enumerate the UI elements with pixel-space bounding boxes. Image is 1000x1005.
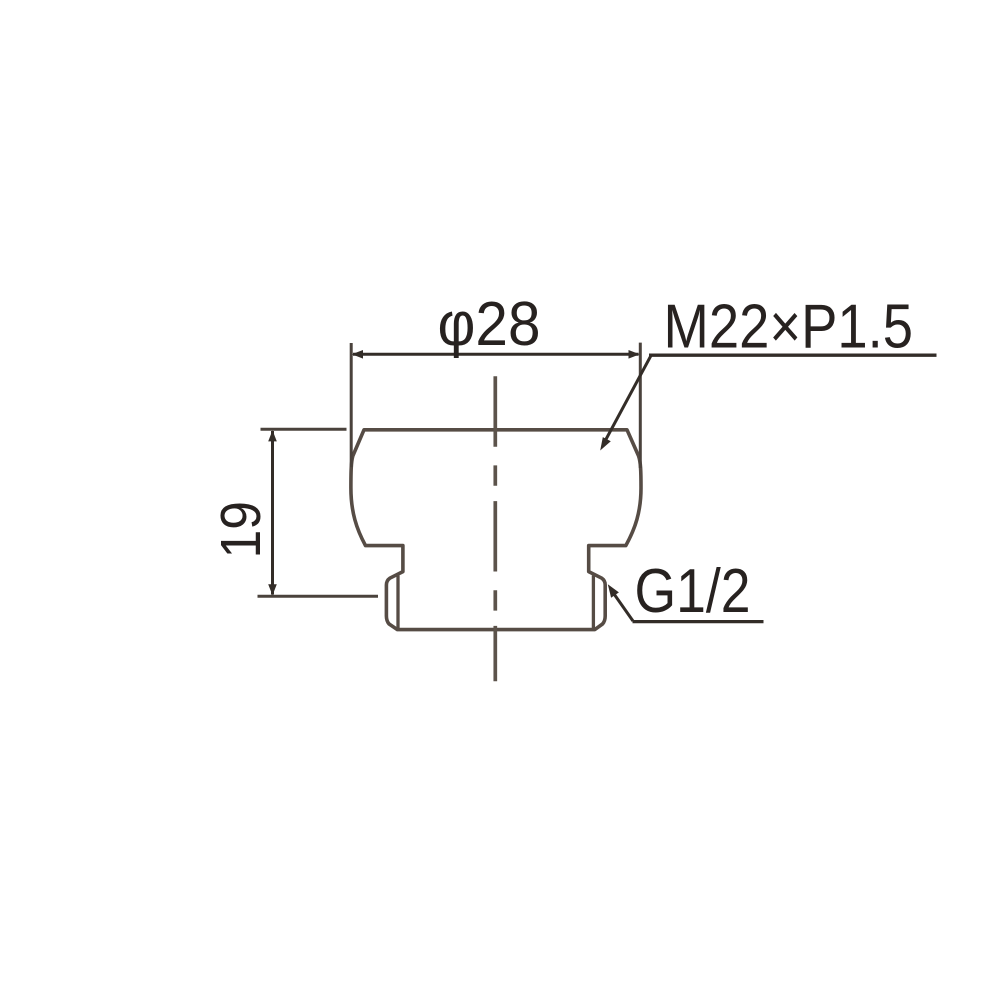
leader M22 arrow — [600, 437, 611, 450]
dim phi28 line — [353, 353, 639, 356]
arrow right — [629, 350, 640, 359]
centerline — [493, 376, 497, 681]
arrow down — [268, 584, 277, 595]
leader G12 diagonal — [611, 589, 634, 621]
dim phi28 ext line right — [639, 343, 642, 468]
thread relief inner line right — [592, 576, 595, 629]
dim phi28 ext line left — [350, 343, 353, 467]
svg-text:G1/2: G1/2 — [635, 557, 751, 626]
dim 19 line — [271, 431, 274, 595]
arrow up — [268, 430, 277, 441]
svg-text:M22×P1.5: M22×P1.5 — [664, 293, 914, 362]
dim 19 ext line bottom — [258, 595, 379, 598]
part outline — [351, 430, 641, 630]
svg-text:φ28: φ28 — [438, 290, 541, 359]
arrow left — [352, 350, 363, 359]
svg-text:19: 19 — [209, 501, 273, 559]
leader G12 arrow — [608, 584, 619, 597]
leader G12 underline — [633, 620, 764, 623]
leader M22 diagonal — [604, 356, 651, 444]
dim 19 ext line top — [261, 428, 347, 431]
leader M22 underline — [649, 354, 937, 357]
thread relief inner line left — [396, 576, 399, 629]
